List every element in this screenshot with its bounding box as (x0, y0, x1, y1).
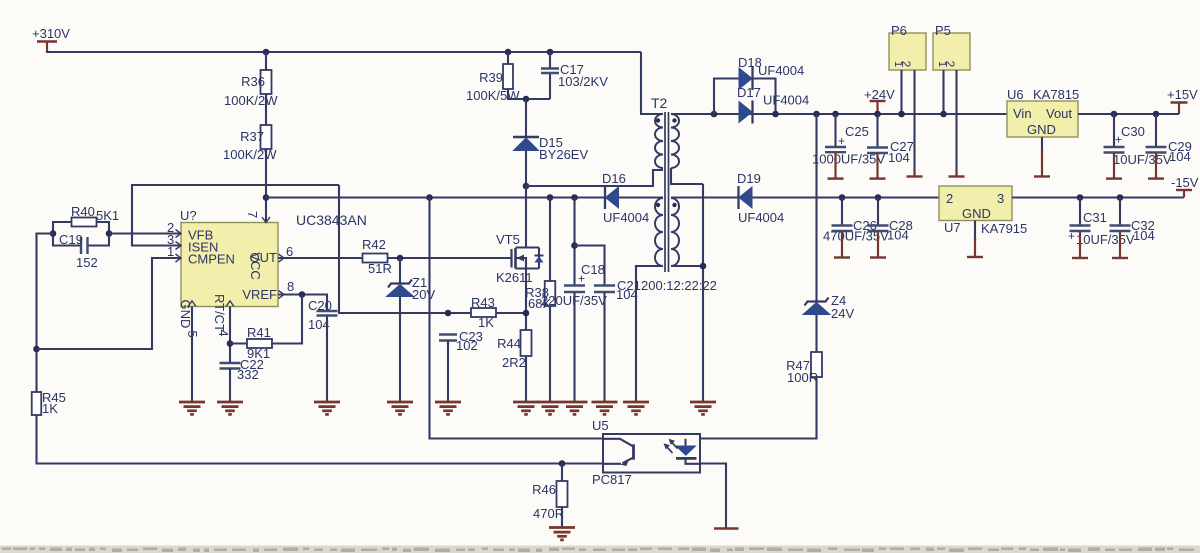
svg-text:UF4004: UF4004 (603, 210, 649, 225)
ground stub C25 (834, 152, 836, 178)
wire U7 GND lead (974, 221, 976, 241)
wire U6 GND lead (1041, 137, 1043, 150)
zener Z1 (388, 280, 412, 288)
ground C20 (314, 401, 340, 404)
svg-text:T2: T2 (651, 95, 668, 111)
ground C22 (217, 401, 243, 404)
wire opto drive x=429.5 (430, 198, 604, 439)
wire C18 to ground (573, 292, 575, 402)
resistor R41 (247, 339, 272, 348)
node left drop / CMPEN branch (33, 346, 40, 353)
node C30 tap (1111, 111, 1118, 118)
svg-text:U?: U? (180, 208, 197, 223)
svg-text:104: 104 (1133, 228, 1155, 243)
node R39 top (505, 49, 512, 56)
ground stub C31 (1079, 231, 1081, 258)
svg-text:R37: R37 (240, 129, 264, 144)
svg-text:2R2: 2R2 (502, 355, 526, 370)
svg-text:D19: D19 (737, 171, 761, 186)
pin 2 chevron (176, 230, 182, 238)
wire R39 leads (507, 52, 509, 64)
ground R46 (549, 526, 575, 529)
svg-text:U6: U6 (1007, 87, 1024, 102)
node VCC junction under R37 (263, 194, 270, 201)
wire primary bottom y=186 (526, 170, 663, 186)
svg-text:+: + (838, 134, 845, 148)
svg-text:VCC: VCC (248, 252, 263, 279)
ground stub C32 (1119, 231, 1121, 258)
svg-text:1K: 1K (42, 401, 58, 416)
svg-text:R41: R41 (247, 325, 271, 340)
capacitor C21 104 (594, 284, 615, 286)
capacitor C29 104 (1146, 146, 1167, 148)
capacitor C17 (541, 67, 559, 69)
resistor R40 (72, 218, 97, 227)
svg-text:332: 332 (237, 367, 259, 382)
svg-text:104: 104 (888, 150, 910, 165)
optocoupler U5 PC817 box (603, 434, 700, 473)
svg-text:RT/CT: RT/CT (212, 294, 227, 332)
svg-text:R36: R36 (241, 74, 265, 89)
svg-text:GND: GND (962, 206, 991, 221)
capacitor C19 (80, 237, 82, 254)
regulator U6 KA7815 box (1007, 101, 1078, 137)
wire C21 branch (575, 246, 605, 286)
opto phototransistor (603, 439, 633, 447)
svg-text:102: 102 (456, 338, 478, 353)
resistor R39 (503, 64, 513, 89)
resistor R37 (261, 125, 272, 149)
node C25 tap (832, 111, 839, 118)
wire upper-right winding bottom center-tap (671, 168, 703, 184)
phase dot lower-right (672, 203, 676, 207)
diode D16 UF4004 (604, 186, 606, 209)
svg-text:10UF/35V: 10UF/35V (1113, 152, 1172, 167)
node C27 tap (874, 111, 881, 118)
svg-text:VREF: VREF (242, 287, 277, 302)
svg-text:U7: U7 (944, 220, 961, 235)
transformer primary upper-left winding (655, 114, 663, 168)
pin 4 chevron (226, 301, 234, 307)
ground stub C27 (876, 153, 878, 179)
svg-text:C30: C30 (1121, 124, 1145, 139)
capacitor C20 (317, 310, 338, 312)
wire secondary lower output y=197.5 (671, 196, 939, 198)
resistor R38 (549, 198, 551, 403)
wire upper-right winding top to rail (671, 113, 714, 115)
node C23 tap (445, 310, 452, 317)
opto LED (684, 439, 686, 446)
svg-text:K2611: K2611 (496, 270, 533, 285)
ground stub P5 pin2 (955, 170, 957, 177)
capacitor C28 104 (868, 224, 889, 226)
wire P6 pin2 (913, 70, 915, 177)
transformer core lines (664, 112, 666, 272)
svg-text:103/2KV: 103/2KV (558, 74, 608, 89)
wire source to R44 (525, 269, 527, 403)
ground stub P6 pin2 (913, 170, 915, 177)
svg-text:PC817: PC817 (592, 472, 632, 487)
wire C29 feed (1155, 114, 1157, 147)
wire C31 feed (1079, 198, 1081, 226)
svg-text:104: 104 (1169, 149, 1191, 164)
node VREF branch (299, 291, 306, 298)
svg-text:U5: U5 (592, 418, 609, 433)
svg-text:100K/2W: 100K/2W (223, 147, 277, 162)
diode D17 UF4004 (751, 101, 753, 124)
node C28 tap (875, 194, 882, 201)
node C32 tap (1117, 194, 1124, 201)
wire C17 leads (549, 52, 551, 69)
svg-text:R46: R46 (532, 482, 556, 497)
wire VFB pin2 y=233.5 (109, 232, 181, 234)
wire C22 to ground (229, 369, 231, 403)
wire R36-R37-pin7 vertical x=266 (265, 52, 267, 223)
svg-text:P5: P5 (935, 23, 951, 38)
capacitor C27 104 (867, 146, 888, 148)
svg-text:9K1: 9K1 (247, 346, 270, 361)
diode D19 UF4004 (737, 186, 739, 209)
capacitor C22 (220, 362, 241, 364)
node Z4 feed (813, 111, 820, 118)
wire C20 to ground (326, 316, 328, 403)
zener Z4 (805, 298, 829, 306)
ground stub C30 (1113, 153, 1115, 179)
wire C23 to ground (447, 341, 449, 403)
wire P5 pin2 (955, 70, 957, 177)
svg-text:2: 2 (899, 61, 913, 68)
svg-text:104: 104 (616, 287, 638, 302)
svg-text:C20: C20 (308, 298, 332, 313)
node opto drive tap (426, 194, 433, 201)
svg-text:24V: 24V (831, 306, 854, 321)
svg-text:10UF/35V: 10UF/35V (1076, 232, 1135, 247)
svg-text:R44: R44 (497, 336, 521, 351)
wire C25 feed (834, 114, 836, 147)
svg-text:C31: C31 (1083, 210, 1107, 225)
svg-text:2: 2 (943, 61, 957, 68)
node loop right (106, 230, 113, 237)
wire D18 bypass branch (714, 79, 776, 115)
wire R40/C19 loop top branch (53, 222, 109, 234)
opto light arrows (666, 446, 673, 453)
ground Z1 (387, 401, 413, 404)
svg-text:+: + (578, 272, 585, 286)
wire primary top lead (641, 52, 663, 114)
wire lower-left winding bottom to ground (636, 266, 663, 402)
node C17 top (547, 49, 554, 56)
wire C30 feed (1113, 114, 1115, 147)
ground stub C29 (1155, 153, 1157, 179)
node P6 pin1 (898, 111, 905, 118)
wire R40/C19 loop bottom branch (53, 234, 109, 246)
node C18 tap (571, 194, 578, 201)
wire R45 to bottom rail (37, 415, 604, 464)
phase dot upper-left (656, 118, 660, 122)
connector P6 (889, 33, 926, 70)
node C26 tap (839, 194, 846, 201)
node R46 tap (559, 460, 566, 467)
node C29 tap (1153, 111, 1160, 118)
svg-text:UF4004: UF4004 (738, 210, 784, 225)
wire CMPEN pin1 route (37, 258, 182, 349)
wire opto cathode to ground (700, 464, 726, 529)
scan edge strip (0, 546, 1200, 553)
phase dot upper-right (672, 118, 676, 122)
node Z1 tap (397, 255, 404, 262)
svg-text:R40: R40 (71, 204, 95, 219)
svg-text:+24V: +24V (864, 87, 895, 102)
node RT/CT R41 tap (227, 340, 234, 347)
connector P5 (933, 33, 970, 70)
transformer upper-right winding (671, 114, 679, 168)
svg-text:UC3843AN: UC3843AN (296, 212, 367, 228)
node D18 branch right (772, 111, 779, 118)
ground stub opto (714, 527, 739, 530)
ground IC GND (179, 401, 205, 404)
pin 6 chevron (279, 254, 285, 262)
ground center tap (690, 401, 716, 404)
resistor R43 (471, 308, 496, 317)
pin 3 chevron (176, 242, 182, 250)
svg-text:VT5: VT5 (496, 232, 520, 247)
pin 8 chevron (279, 291, 285, 299)
ground C23 (435, 401, 461, 404)
resistor R47 (811, 352, 822, 377)
node primary bottom / drain (523, 183, 530, 190)
pin 5 chevron (188, 301, 196, 307)
ground stub U6 (1041, 148, 1043, 177)
wire OUT pin6 to gate (278, 257, 512, 259)
wire C26 feed (841, 198, 843, 226)
pin 1 chevron (176, 254, 182, 262)
svg-text:100K/5W: 100K/5W (466, 88, 520, 103)
wire Z4 to R47 (815, 315, 817, 353)
diode D15 BY26EV (513, 136, 539, 138)
svg-text:20V: 20V (412, 287, 435, 302)
node gate-network to source (523, 310, 530, 317)
wire A feedback y=185 (132, 185, 339, 246)
resistor R46 (561, 464, 563, 482)
wire C21 to ground (603, 292, 605, 402)
svg-text:7: 7 (245, 211, 260, 218)
svg-text:R39: R39 (479, 70, 503, 85)
svg-text:200:12:22:22: 200:12:22:22 (641, 278, 717, 293)
svg-text:C19: C19 (59, 232, 83, 247)
ground stub C28 (877, 231, 879, 258)
capacitor C23 (439, 333, 457, 335)
wire P6 pin1 (900, 70, 902, 114)
svg-text:5K1: 5K1 (96, 208, 119, 223)
node snubber junction (523, 96, 530, 103)
svg-text:UF4004: UF4004 (758, 63, 804, 78)
wire RT/CT pin x=230 (229, 307, 231, 364)
pin 7 chevron (262, 217, 270, 223)
svg-text:100R: 100R (787, 370, 818, 385)
transformer lower-left winding (655, 198, 663, 266)
ground R44 (513, 401, 539, 404)
capacitor C32 104 (1110, 224, 1131, 226)
svg-text:C25: C25 (845, 124, 869, 139)
node P5 pin1 (940, 111, 947, 118)
resistor R42 (363, 254, 388, 263)
regulator U7 KA7915 box (939, 186, 1012, 221)
wire D15 to primary-bottom node (525, 151, 527, 187)
capacitor C31 10UF (1070, 224, 1091, 226)
capacitor C30 10UF (1104, 146, 1125, 148)
svg-text:8: 8 (287, 279, 294, 294)
wire P5 pin1 (942, 70, 944, 114)
transformer lower-right winding (671, 198, 679, 266)
wire C32 feed (1119, 198, 1121, 226)
wire C18 feed (573, 198, 575, 286)
svg-text:6: 6 (286, 244, 293, 259)
svg-text:KA7915: KA7915 (981, 221, 1027, 236)
svg-text:470R: 470R (533, 506, 564, 521)
diode D18 UF4004 (751, 67, 753, 90)
wire C27 feed (876, 114, 878, 148)
svg-text:3: 3 (997, 191, 1004, 206)
ground C21 (592, 401, 618, 404)
wire snubber to D15 (525, 99, 527, 137)
svg-text:GND: GND (1027, 122, 1056, 137)
wire GND pin x=192 (191, 307, 193, 403)
wire Z1 branch upper (399, 258, 401, 284)
node loop left (50, 230, 57, 237)
svg-text:Vin: Vin (1013, 106, 1032, 121)
svg-text:R42: R42 (362, 237, 386, 252)
svg-text:D16: D16 (602, 171, 626, 186)
transistor VT5 K2611 MOSFET (510, 249, 512, 268)
svg-text:+310V: +310V (32, 26, 70, 41)
svg-text:+15V: +15V (1167, 87, 1198, 102)
node R38 tap (547, 194, 554, 201)
resistor R36 (261, 70, 272, 94)
wire Z1 to ground (399, 297, 401, 403)
svg-text:Vout: Vout (1046, 106, 1072, 121)
svg-text:-15V: -15V (1171, 175, 1199, 190)
wire R41 branch (230, 295, 302, 344)
wire C28 feed (877, 198, 879, 226)
node C31 tap (1077, 194, 1084, 201)
svg-text:UF4004: UF4004 (763, 93, 809, 108)
op-amp U? UC3843AN controller box (181, 223, 278, 307)
ground stub U7 (974, 238, 976, 257)
node D18 branch left (711, 111, 718, 118)
wire R46 to ground (561, 507, 563, 528)
resistor R45 (32, 392, 42, 415)
capacitor C26 470UF (832, 224, 853, 226)
wire center tap down x=703 (702, 184, 704, 402)
svg-text:2: 2 (946, 191, 953, 206)
capacitor C25 1000UF (825, 146, 846, 148)
svg-text:51R: 51R (368, 261, 392, 276)
wire VREF pin8 (278, 295, 327, 312)
wire +24V rail y=114 (714, 113, 1007, 115)
wire +15V output rail (1078, 113, 1179, 115)
svg-text:100K/2W: 100K/2W (224, 93, 278, 108)
wire -15V output rail (1012, 196, 1184, 198)
svg-text:P6: P6 (891, 23, 907, 38)
ground C18 (562, 401, 588, 404)
svg-text:+: + (1068, 229, 1075, 243)
resistor R44 (521, 330, 532, 356)
svg-text:+: + (1115, 133, 1122, 147)
ground transformer left (623, 401, 649, 404)
wire R47 to opto LED (700, 377, 817, 439)
node R36 top (263, 49, 270, 56)
svg-text:4: 4 (216, 329, 231, 336)
node center tap (700, 263, 707, 270)
svg-text:CMPEN: CMPEN (188, 252, 235, 267)
svg-text:KA7815: KA7815 (1033, 87, 1079, 102)
phase dot lower-left (656, 203, 660, 207)
wire top rail +310V y=52 (46, 51, 641, 53)
svg-text:R43: R43 (471, 295, 495, 310)
ground R38 (537, 401, 563, 404)
svg-text:1K: 1K (478, 315, 494, 330)
capacitor C18 220UF (564, 284, 585, 286)
svg-text:1: 1 (167, 244, 174, 259)
node C21 branch (571, 242, 578, 249)
svg-text:152: 152 (76, 255, 98, 270)
wire lower-right winding bottom (671, 265, 703, 267)
ground stub C26 (841, 231, 843, 258)
wire Z4 chain x=816.5 (815, 114, 817, 302)
wire x=339 vertical + y=313 gate network (339, 185, 526, 313)
wire VCC rail y=197.5 to transformer (266, 196, 663, 198)
svg-text:D17: D17 (737, 85, 761, 100)
svg-text:104: 104 (887, 228, 909, 243)
wire left drop x=36.5 (37, 234, 54, 393)
svg-text:BY26EV: BY26EV (539, 147, 588, 162)
